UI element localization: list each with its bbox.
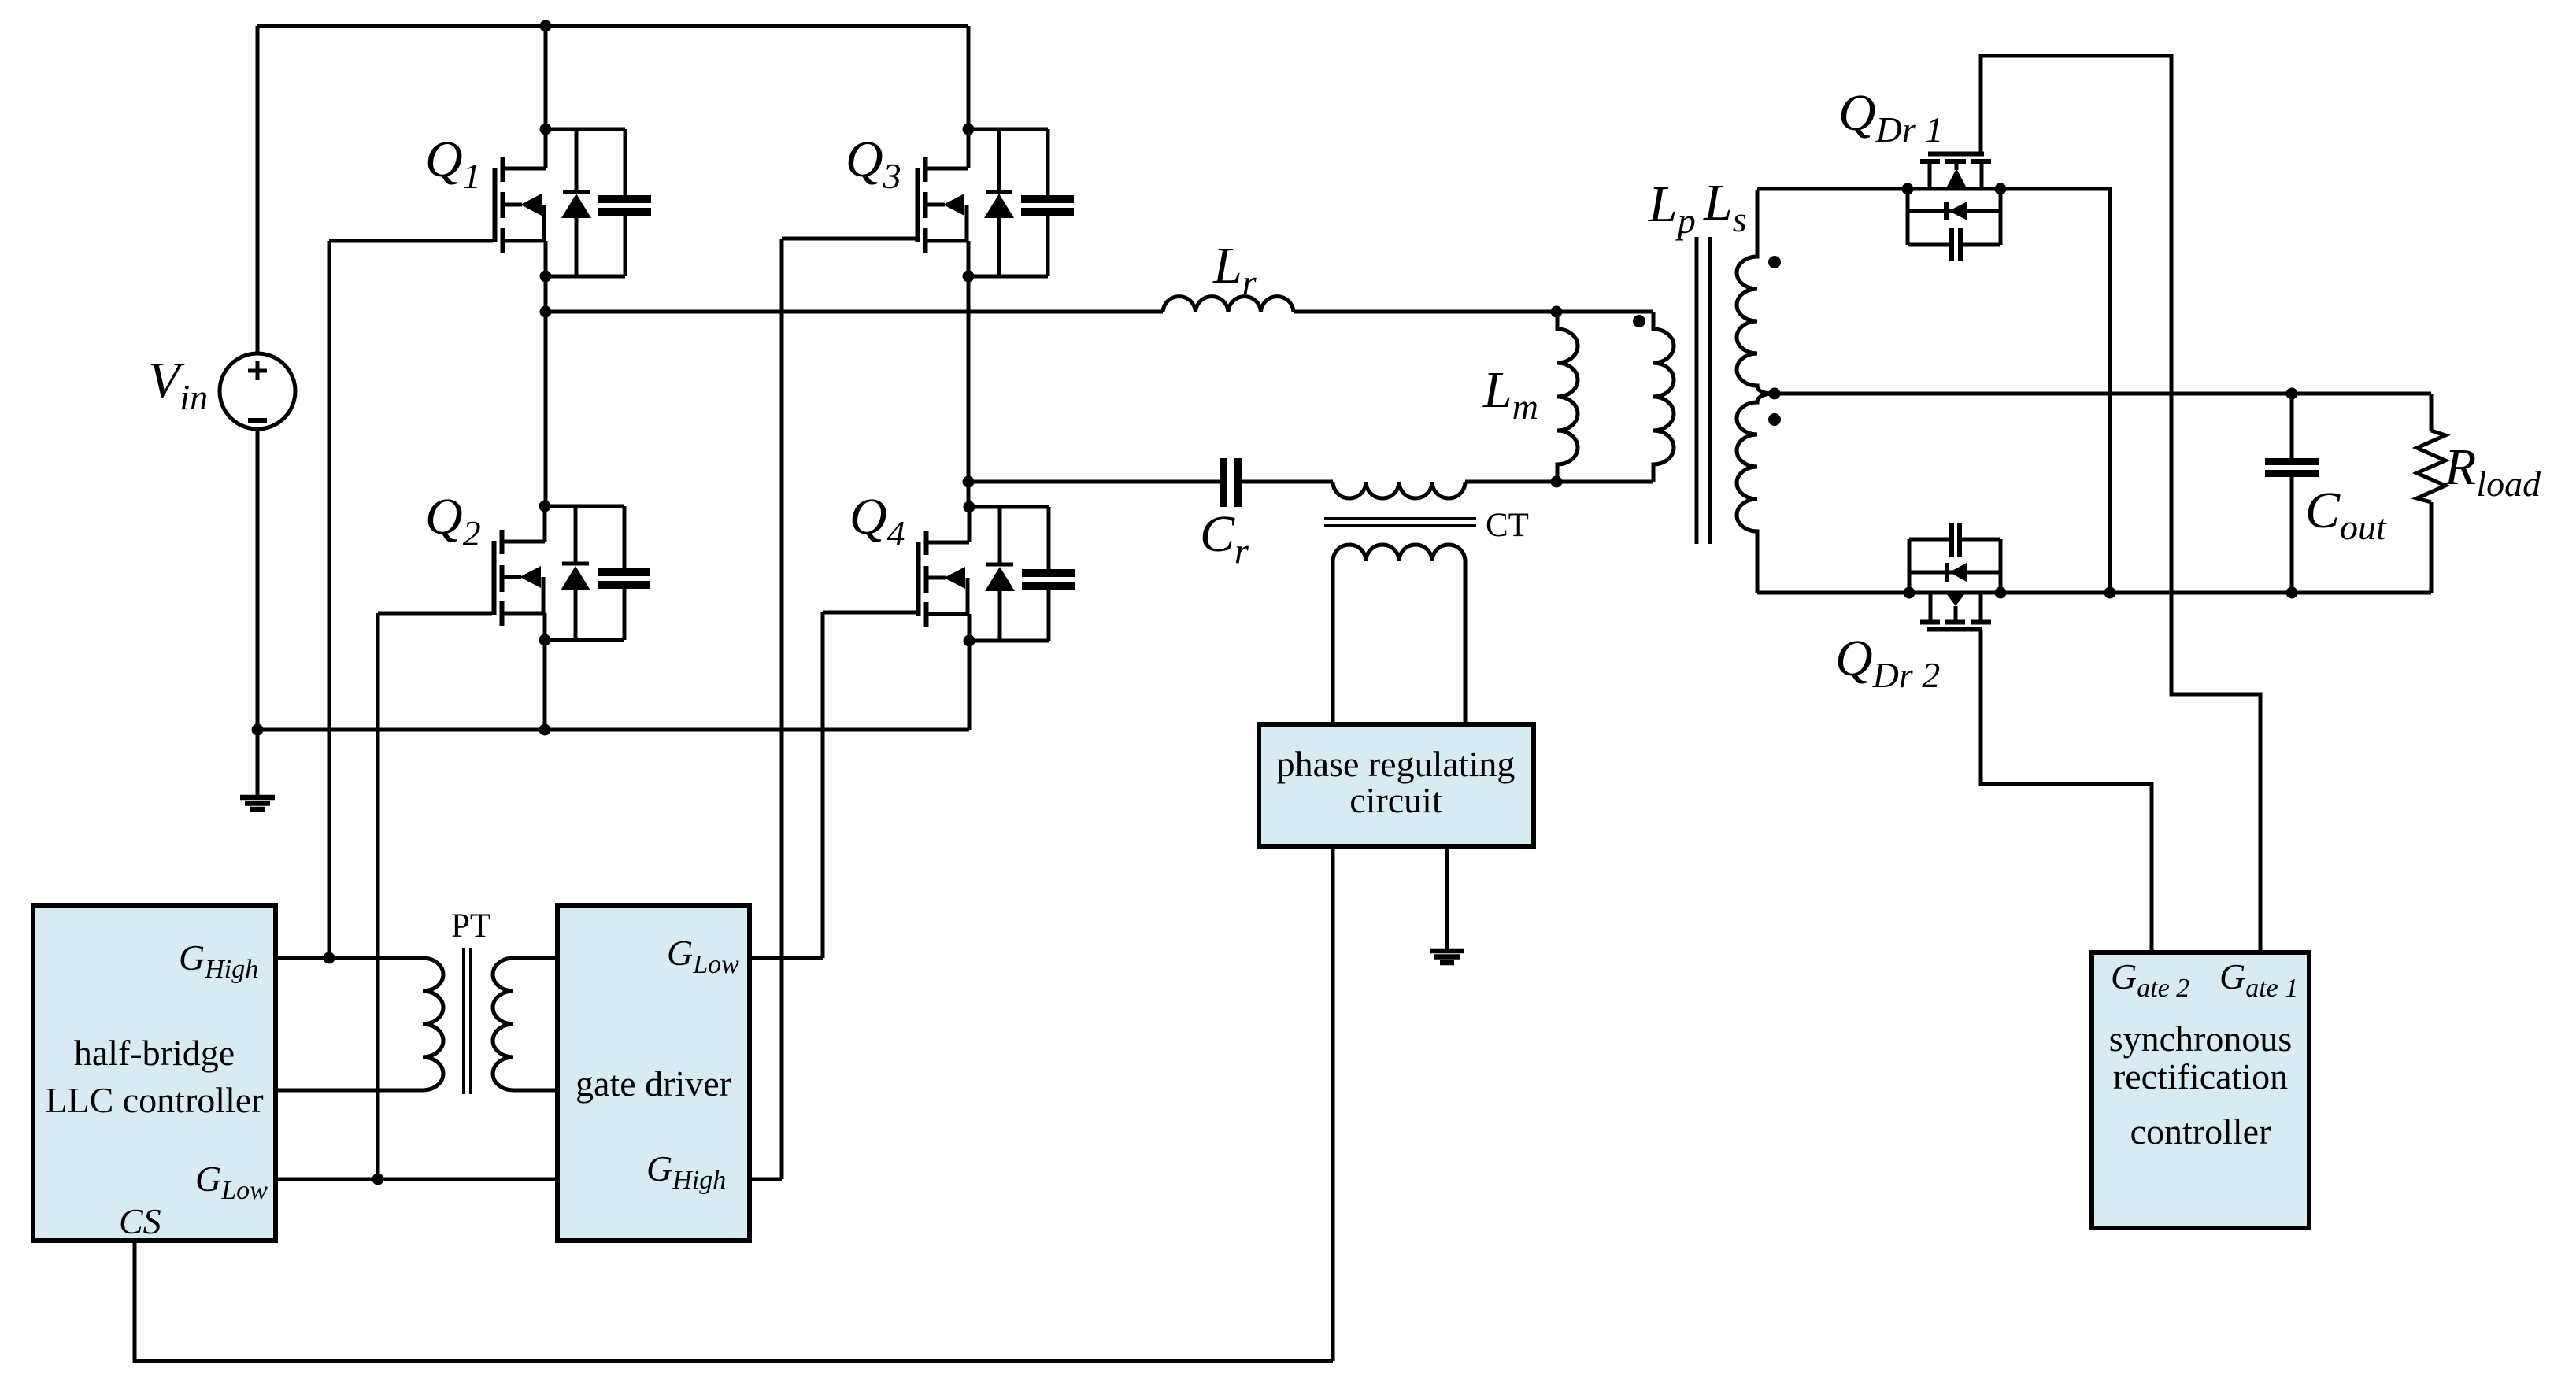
svg-text:LLC controller: LLC controller <box>45 1080 263 1120</box>
wire CT to Lm bottom <box>1465 480 1653 484</box>
transistor Q3 <box>918 124 1075 283</box>
transistor Q4 <box>919 501 1075 647</box>
wire Q3 source to Q4 drain (node B) <box>967 276 971 507</box>
wire G_High to PT <box>276 956 423 960</box>
wire node B to Cr <box>969 480 1220 484</box>
secondary phase dot lower <box>1768 413 1781 426</box>
ground input <box>240 797 275 809</box>
box half-bridge LLC controller <box>33 905 276 1241</box>
node Cout top <box>2286 388 2298 400</box>
wire Vin bottom lead <box>256 429 260 730</box>
node Vin/bottom-rail junction <box>252 724 264 736</box>
svg-text:PT: PT <box>451 908 490 945</box>
wire Q3 gate <box>782 239 916 1179</box>
svg-text:phase regulating: phase regulating <box>1277 744 1516 784</box>
wire Q2 source to rail <box>543 640 547 730</box>
box synchronous rectification controller <box>2092 952 2309 1228</box>
svg-text:half-bridge: half-bridge <box>74 1033 235 1073</box>
node QDr1/rail junction <box>2104 587 2116 599</box>
wire Q1 gate <box>329 241 493 958</box>
wire Cout bottom lead <box>2290 477 2294 593</box>
pulse transformer PT primary <box>423 958 443 1090</box>
transistor QDr1 <box>1902 154 2007 262</box>
capacitor Cout <box>2265 458 2319 477</box>
node Lm bottom <box>1551 476 1563 488</box>
node Lm top <box>1551 306 1563 318</box>
wire QDr1 gate loop <box>1981 56 2260 952</box>
pulse transformer PT core <box>464 948 471 1094</box>
current transformer CT core <box>1324 519 1476 526</box>
wire ground stem <box>256 730 260 796</box>
box phase regulating circuit <box>1259 724 1534 846</box>
svg-text:controller: controller <box>2130 1111 2271 1152</box>
transformer primary winding Lp <box>1653 312 1674 482</box>
wire Lr to primary top <box>1294 310 1653 314</box>
transformer secondary winding upper <box>1737 190 1775 394</box>
svg-text:CS: CS <box>119 1201 161 1241</box>
node A (Q1/Q2 midpoint) <box>540 306 552 318</box>
wire node A to Lr <box>546 310 1163 314</box>
wire Q4 gate <box>823 612 916 958</box>
svg-text:circuit: circuit <box>1349 780 1442 820</box>
wire node A to Q2 drain <box>544 312 548 506</box>
svg-text:rectification: rectification <box>2113 1056 2288 1096</box>
pulse transformer PT secondary <box>493 958 513 1090</box>
svg-text:synchronous: synchronous <box>2109 1019 2293 1059</box>
wire Q1 drain lead <box>544 26 548 129</box>
node Q2-gate/G_Low junction <box>372 1174 384 1185</box>
primary phase dot <box>1633 315 1645 327</box>
current transformer CT secondary <box>1333 545 1465 724</box>
wire QDr1 right to rail <box>2000 189 2110 593</box>
transistor Q1 <box>495 124 652 283</box>
inductor Lr <box>1163 297 1294 312</box>
wire QDr2 gate loop <box>1981 630 2152 952</box>
secondary phase dot upper <box>1768 256 1781 268</box>
wire top rail <box>257 24 968 28</box>
node Q2 source/rail <box>539 724 551 736</box>
ground phase <box>1430 951 1464 963</box>
node top-rail/Q1 junction <box>540 20 552 32</box>
transistor Q2 <box>494 501 651 646</box>
wire secondary top to QDr1 <box>1757 187 1908 191</box>
node B (Cr branch) <box>963 476 975 488</box>
wire PT primary bottom <box>276 1089 423 1093</box>
node Q1-gate/G_High junction <box>324 952 335 964</box>
wire phase box ground lead <box>1445 846 1449 949</box>
wire bottom rail secondary <box>1757 591 2431 595</box>
wire CS lead <box>135 1241 1333 1361</box>
capacitor Cr <box>1220 458 1242 507</box>
wire G_Low (LLC) to gate driver <box>276 1178 557 1181</box>
wire Cr to CT <box>1242 480 1333 484</box>
transformer secondary winding lower <box>1737 394 1775 593</box>
resistor Rload <box>2417 394 2445 593</box>
wire driver G_Low to Q4 gate <box>749 956 823 960</box>
current transformer CT primary <box>1333 482 1465 498</box>
svg-text:CT: CT <box>1486 507 1529 544</box>
svg-text:gate driver: gate driver <box>576 1063 731 1104</box>
transistor QDr2 <box>1904 523 2007 630</box>
wire Q1 source to node A <box>544 276 548 312</box>
box gate driver <box>557 905 749 1241</box>
wire PT secondary bottom <box>513 1089 557 1093</box>
node Cout bottom <box>2286 587 2298 599</box>
wire phase box left lead <box>1331 846 1335 1361</box>
wire Cout top lead <box>2290 394 2294 458</box>
wire Vin top lead <box>256 26 260 353</box>
node secondary center tap <box>1769 388 1781 400</box>
wire center tap to Rload <box>1775 392 2431 396</box>
wire bottom rail <box>257 728 969 732</box>
wire driver G_High to Q3 gate <box>749 1178 782 1181</box>
wire top rail to Q3 drain <box>967 26 971 129</box>
transformer core <box>1697 237 1710 544</box>
voltage source Vin <box>220 353 295 429</box>
wire PT secondary top <box>513 956 557 960</box>
inductor Lm <box>1557 312 1578 482</box>
wire Q4 source to rail <box>968 641 972 730</box>
wire Q2 gate <box>378 613 492 1179</box>
